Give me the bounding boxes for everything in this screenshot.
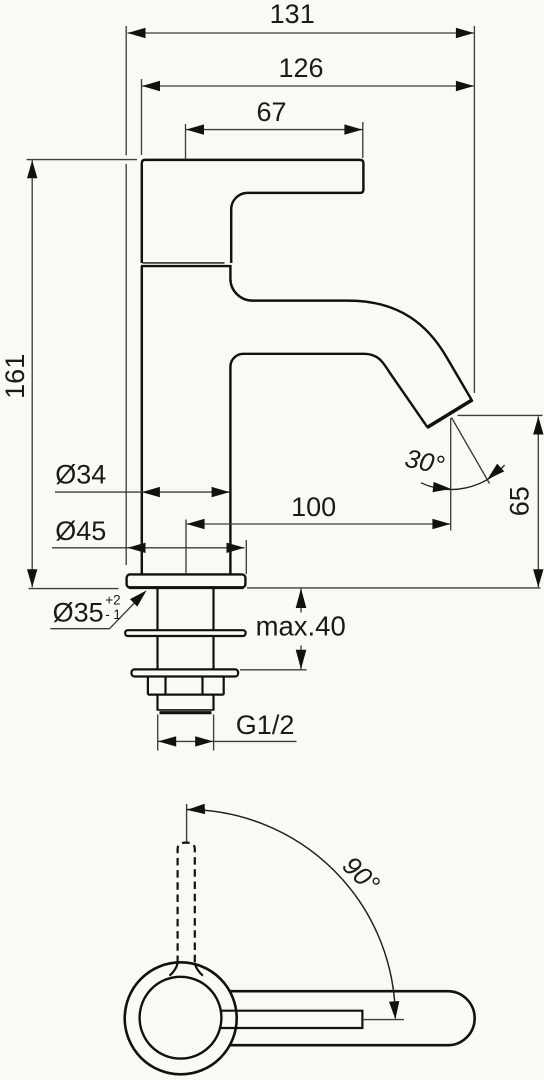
- ext line x141.5 for 126: [141, 79, 143, 155]
- 65 ext line from outlet: [458, 414, 543, 416]
- faucet side view outline: [125, 160, 472, 713]
- G1/2 ext lines: [158, 715, 214, 751]
- 30 deg angled line: [452, 418, 490, 484]
- arrows max40: [296, 588, 307, 608]
- svg-text:max.40: max.40: [256, 610, 346, 641]
- seam thick line (body top): [141, 265, 232, 267]
- arrows 65: [533, 417, 543, 435]
- labels upper view: [0, 0, 534, 740]
- arrows G1/2: [158, 736, 176, 746]
- arrow O35 leader: [130, 587, 150, 607]
- ext line x185.5 for 67: [185, 124, 187, 159]
- seam thin line: [143, 262, 225, 264]
- 65 bottom ref line (flange bottom ext): [247, 587, 541, 589]
- svg-text:Ø35: Ø35: [53, 597, 104, 627]
- handle dome inner circle: [140, 977, 222, 1059]
- 90 deg arc: [187, 810, 396, 1019]
- arrows 126: [142, 81, 160, 91]
- svg-text:65: 65: [504, 486, 534, 516]
- dimension lines: [27, 26, 543, 751]
- body right edge and spout top: [230, 266, 471, 400]
- spout outlet face: [427, 400, 473, 428]
- threaded shank lower: [158, 695, 214, 711]
- arrows O34: [142, 487, 160, 497]
- arrows 131: [128, 28, 146, 38]
- ext line x362.8 for 67: [362, 122, 364, 158]
- threaded shank middle: [158, 636, 214, 669]
- nut: [148, 677, 224, 695]
- base flange: [127, 574, 246, 587]
- max40 arrow tails: [300, 589, 302, 670]
- G1/2 dim + shelf: [158, 740, 296, 742]
- arrows O45: [128, 543, 146, 553]
- svg-text:131: 131: [270, 0, 315, 29]
- arrows 90 deg arc: [187, 804, 401, 1020]
- dim line 161 vertical: [31, 160, 33, 587]
- dim line O45: [52, 547, 245, 549]
- ext line x474.4 right: [473, 26, 475, 393]
- dim line 126: [142, 85, 474, 87]
- body column left edge: [141, 266, 143, 574]
- handle up position dashed: [178, 843, 195, 963]
- dim line 65 vertical: [537, 417, 539, 588]
- 30 deg arc: [421, 465, 505, 489]
- spout bottom edge and column right edge: [230, 354, 427, 575]
- svg-text:67: 67: [256, 97, 286, 127]
- lever axis line: [362, 1019, 404, 1021]
- handle up flare left: [170, 963, 178, 976]
- handle up flare right: [195, 963, 203, 976]
- 161 ext top: [27, 159, 138, 161]
- shank tip bottom: [160, 711, 212, 714]
- arrows 30 deg arc: [433, 482, 452, 494]
- svg-text:126: 126: [278, 53, 323, 83]
- dim line 131: [128, 32, 474, 34]
- lever arm outline: [230, 991, 475, 1045]
- lever neck inner lines: [220, 1011, 362, 1028]
- shank tip thread line: [158, 709, 214, 711]
- svg-text:100: 100: [291, 492, 336, 522]
- svg-text:Ø45: Ø45: [55, 516, 106, 546]
- threaded shank upper: [158, 589, 214, 630]
- flange bottom thick line: [129, 586, 244, 589]
- arrows 161: [27, 160, 37, 178]
- ext line x246.3 flange right: [245, 540, 247, 574]
- washer 1: [125, 630, 245, 636]
- arrows 67: [186, 124, 204, 134]
- dim line O34: [55, 491, 230, 493]
- arrowheads upper view: [27, 28, 544, 747]
- svg-text:90°: 90°: [337, 850, 386, 899]
- ext line left x126: [125, 26, 127, 565]
- svg-text:30°: 30°: [402, 443, 447, 481]
- svg-text:+2: +2: [105, 592, 120, 607]
- 161 ext bottom: [29, 588, 119, 590]
- washer 2: [132, 669, 239, 676]
- ext line above handle: [186, 804, 188, 842]
- lever handle: [142, 160, 364, 263]
- handle rosette outer circle: [125, 962, 237, 1074]
- ext line axis x186: [185, 520, 187, 575]
- svg-text:Ø34: Ø34: [55, 459, 106, 489]
- dim line 67: [186, 129, 362, 131]
- ext line x450.7 outlet vertical: [450, 418, 452, 531]
- handle top view: [125, 804, 475, 1074]
- svg-text:161: 161: [0, 354, 30, 399]
- max40 bottom ref stub: [240, 669, 307, 671]
- O35 shelf and leader: [50, 593, 144, 629]
- dim line 100: [187, 523, 451, 525]
- arrows 100: [187, 519, 205, 529]
- svg-text:G1/2: G1/2: [236, 710, 295, 740]
- svg-text:- 1: - 1: [105, 607, 121, 622]
